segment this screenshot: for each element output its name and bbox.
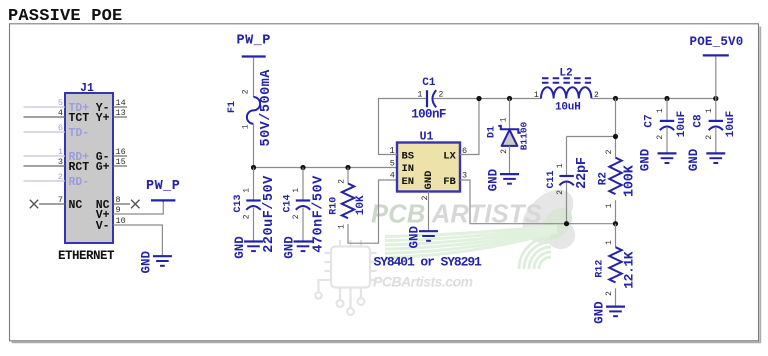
J1 pin 10 V- xyxy=(96,216,126,233)
svg-text:G+: G+ xyxy=(96,161,110,174)
wire D1 anode to GND xyxy=(509,146,511,174)
svg-text:GND: GND xyxy=(139,250,153,273)
svg-text:D1: D1 xyxy=(486,126,497,138)
J1 pin 3 RCT xyxy=(24,157,90,174)
svg-text:R12: R12 xyxy=(595,260,606,278)
wire PW_P to F1 pin 2 xyxy=(253,58,255,97)
capacitor C8 10uF xyxy=(692,108,737,140)
svg-text:1: 1 xyxy=(417,89,422,99)
svg-text:10uF: 10uF xyxy=(725,111,737,137)
J1 pin 15 G+ xyxy=(96,157,127,174)
junction C8/POE_5V0 xyxy=(713,96,718,101)
svg-text:SY8401 or SY8291: SY8401 or SY8291 xyxy=(374,255,483,270)
svg-text:10uH: 10uH xyxy=(555,102,581,114)
svg-text:RCT: RCT xyxy=(69,161,90,174)
U1 pin 1 BS xyxy=(389,146,414,163)
svg-text:1: 1 xyxy=(534,90,539,100)
svg-text:R10: R10 xyxy=(329,197,340,215)
J1 pin 6 TD- xyxy=(24,123,90,140)
svg-text:GND: GND xyxy=(408,225,422,248)
svg-text:V-: V- xyxy=(96,220,110,233)
diode D1 B1100 schottky xyxy=(486,117,529,154)
svg-text:1: 1 xyxy=(556,163,565,168)
svg-text:9: 9 xyxy=(116,205,121,215)
svg-text:8: 8 xyxy=(116,195,121,205)
capacitor C1 100nF xyxy=(411,77,446,122)
ground GND (R12) xyxy=(593,301,626,324)
svg-text:TD-: TD- xyxy=(69,127,90,140)
U1 pin 5 IN xyxy=(390,158,414,175)
J1 pin 5 TD+ xyxy=(24,98,90,115)
junction C14 xyxy=(300,165,305,170)
power flag PW_P (at J1) xyxy=(146,179,180,202)
ground GND (U1) xyxy=(408,225,439,248)
ground GND (C7) xyxy=(639,148,677,171)
resistor R2 100K xyxy=(597,149,637,208)
wire bus to C14 xyxy=(302,168,304,201)
svg-text:220uF/50V: 220uF/50V xyxy=(262,175,277,253)
svg-text:GND: GND xyxy=(283,236,297,259)
wire C8 to GND xyxy=(715,128,717,153)
svg-text:PCBArtists.com: PCBArtists.com xyxy=(373,274,473,290)
svg-text:C11: C11 xyxy=(546,170,557,188)
svg-text:J1: J1 xyxy=(80,82,94,95)
svg-text:1: 1 xyxy=(656,108,665,113)
junction R12 top xyxy=(613,221,618,226)
wire rail to D1 cathode xyxy=(509,99,511,130)
svg-text:100K: 100K xyxy=(623,164,638,197)
U1 pin 2 GND xyxy=(421,171,435,201)
svg-text:GND: GND xyxy=(639,148,653,171)
junction R10 xyxy=(345,165,350,170)
svg-text:EN: EN xyxy=(402,176,415,188)
svg-text:B1100: B1100 xyxy=(519,121,530,150)
svg-text:GND: GND xyxy=(593,301,607,324)
wire L2 to POE_5V0 rail xyxy=(591,98,715,100)
wire rail to C7 xyxy=(666,99,668,121)
svg-text:2: 2 xyxy=(337,179,346,184)
svg-text:POE_5V0: POE_5V0 xyxy=(690,35,744,49)
wire bus to C13 xyxy=(253,168,255,201)
svg-text:2: 2 xyxy=(500,149,509,154)
wire R12 to GND xyxy=(615,288,617,306)
capacitor C14 470nF/50V xyxy=(283,175,327,253)
capacitor C7 10uF xyxy=(644,108,689,140)
svg-text:3: 3 xyxy=(58,157,63,167)
svg-text:3: 3 xyxy=(462,171,467,181)
J1 pin 9 V+ xyxy=(96,205,121,222)
junction C11/R2 xyxy=(613,134,618,139)
svg-text:L2: L2 xyxy=(559,67,572,79)
U1 pin 4 EN xyxy=(390,171,414,188)
svg-text:GND: GND xyxy=(233,236,247,259)
J1 pin 1 RD+ xyxy=(24,147,90,164)
svg-text:NC: NC xyxy=(69,199,83,212)
svg-text:2: 2 xyxy=(243,214,252,219)
svg-text:2: 2 xyxy=(556,190,565,195)
svg-text:2: 2 xyxy=(605,291,614,296)
svg-text:2: 2 xyxy=(241,89,250,94)
svg-text:16: 16 xyxy=(116,147,126,157)
wire C1 to L2 (LX rail) xyxy=(434,98,542,100)
wire FB node to R12 xyxy=(615,224,617,248)
U1 pin 3 FB xyxy=(443,171,467,188)
svg-text:2: 2 xyxy=(656,135,665,140)
capacitor C11 22pF xyxy=(546,157,590,195)
svg-text:50V/500mA: 50V/500mA xyxy=(259,69,274,147)
wire bus to R10 xyxy=(347,168,349,184)
svg-text:470nF/50V: 470nF/50V xyxy=(311,175,326,253)
svg-text:C1: C1 xyxy=(422,77,436,89)
wire pin 10 to GND xyxy=(113,225,162,256)
J1 pin 4 TCT xyxy=(24,108,90,125)
svg-text:2: 2 xyxy=(705,135,714,140)
svg-text:R2: R2 xyxy=(597,172,609,185)
IC U1 SY8401 buck converter xyxy=(397,131,460,192)
svg-text:C8: C8 xyxy=(692,114,704,128)
svg-text:4: 4 xyxy=(390,171,395,181)
svg-text:GND: GND xyxy=(487,168,501,191)
wire tap to C11 xyxy=(566,137,568,176)
svg-text:GND: GND xyxy=(423,171,435,190)
power flag POE_5V0 xyxy=(690,35,744,56)
J1 pin 14 Y- xyxy=(96,98,127,115)
junction C11 bottom xyxy=(564,221,569,226)
wire POE_5V0 to rail xyxy=(715,57,717,99)
svg-text:7: 7 xyxy=(58,195,63,205)
svg-text:2: 2 xyxy=(292,214,301,219)
svg-text:C7: C7 xyxy=(644,114,656,127)
svg-text:1: 1 xyxy=(241,124,250,129)
svg-text:BS: BS xyxy=(402,151,415,163)
svg-text:100nF: 100nF xyxy=(411,108,446,122)
wire PW_P bus to U1 IN xyxy=(254,167,398,169)
svg-text:15: 15 xyxy=(116,157,126,167)
junction F1/C13 xyxy=(251,165,256,170)
ground GND (C8) xyxy=(687,148,725,171)
svg-text:6: 6 xyxy=(58,123,63,133)
resistor R10 10K xyxy=(329,179,367,229)
J1 pin 8 NC with no-connect cross xyxy=(96,195,140,212)
svg-text:U1: U1 xyxy=(420,131,434,144)
wire C14 to GND xyxy=(302,208,304,242)
svg-text:5: 5 xyxy=(390,158,395,168)
svg-text:GND: GND xyxy=(687,148,701,171)
wire R2 to FB node xyxy=(615,200,617,224)
ground GND (D1) xyxy=(487,168,519,191)
connector J1 xyxy=(58,82,115,263)
wire rail to R2 xyxy=(615,99,617,158)
ground GND (C14) xyxy=(283,236,313,259)
svg-text:2: 2 xyxy=(58,172,63,182)
svg-text:13: 13 xyxy=(116,108,126,118)
svg-text:RD-: RD- xyxy=(69,176,90,189)
svg-text:TCT: TCT xyxy=(69,112,90,125)
wire U1 LX to rail xyxy=(460,99,479,155)
svg-text:5: 5 xyxy=(58,98,63,108)
svg-text:PW_P: PW_P xyxy=(236,34,270,49)
wire C11 tap from R2 top xyxy=(567,136,616,138)
power flag PW_P (at F1) xyxy=(236,34,270,57)
svg-text:FB: FB xyxy=(443,176,456,188)
svg-text:22pF: 22pF xyxy=(575,157,590,189)
wire U1 BS to C1 xyxy=(379,99,427,155)
U1 pin 6 LX xyxy=(443,146,467,163)
svg-text:1: 1 xyxy=(605,240,614,245)
J1 pin 13 Y+ xyxy=(96,108,127,125)
svg-text:14: 14 xyxy=(116,98,126,108)
svg-text:1: 1 xyxy=(705,108,714,113)
fuse F1 50V/500mA xyxy=(227,69,274,147)
junction C7 xyxy=(664,96,669,101)
svg-text:2: 2 xyxy=(605,149,614,154)
junction R2 branch xyxy=(613,96,618,101)
wire C11 to FB node xyxy=(566,183,568,224)
svg-text:IN: IN xyxy=(402,163,415,175)
svg-text:Y+: Y+ xyxy=(96,112,110,125)
junction LX xyxy=(476,96,481,101)
wire F1 pin 1 to PW_P bus xyxy=(253,124,255,168)
svg-text:F1: F1 xyxy=(227,101,238,113)
wire U1 GND pin to ground xyxy=(428,192,430,232)
svg-text:PW_P: PW_P xyxy=(146,179,180,194)
wire C13 to GND xyxy=(253,208,255,242)
svg-text:10K: 10K xyxy=(355,195,367,215)
svg-text:4: 4 xyxy=(58,108,63,118)
svg-text:PASSIVE POE: PASSIVE POE xyxy=(8,7,122,26)
svg-text:1: 1 xyxy=(243,188,252,193)
svg-text:12.1K: 12.1K xyxy=(622,251,637,289)
inductor L2 10uH xyxy=(534,67,599,113)
svg-text:1: 1 xyxy=(58,147,63,157)
resistor R12 12.1K xyxy=(595,240,637,296)
svg-text:1: 1 xyxy=(499,117,508,122)
svg-text:ETHERNET: ETHERNET xyxy=(58,249,115,263)
svg-text:1: 1 xyxy=(292,188,301,193)
svg-text:1: 1 xyxy=(337,224,346,229)
svg-text:C14: C14 xyxy=(283,194,294,212)
svg-text:10uF: 10uF xyxy=(676,111,688,137)
J1 pin 2 RD- xyxy=(24,172,90,189)
wire R10 to U1 EN xyxy=(348,180,397,243)
wire rail to C8 xyxy=(715,99,717,121)
wire U1 FB to divider node xyxy=(460,180,616,224)
wire C7 to GND xyxy=(666,128,668,153)
wire pin 9 to PW_P xyxy=(113,201,163,214)
junction D1 xyxy=(507,96,512,101)
svg-text:10: 10 xyxy=(116,216,126,226)
svg-text:1: 1 xyxy=(605,203,614,208)
J1 pin 7 NC with no-connect cross xyxy=(30,195,83,212)
ground GND (C13) xyxy=(233,236,263,259)
capacitor C13 220uF/50V xyxy=(233,175,277,253)
ground GND (J1 V-) xyxy=(139,250,172,273)
J1 pin 16 G- xyxy=(96,147,127,164)
svg-text:C13: C13 xyxy=(233,194,244,212)
svg-text:LX: LX xyxy=(443,151,456,163)
